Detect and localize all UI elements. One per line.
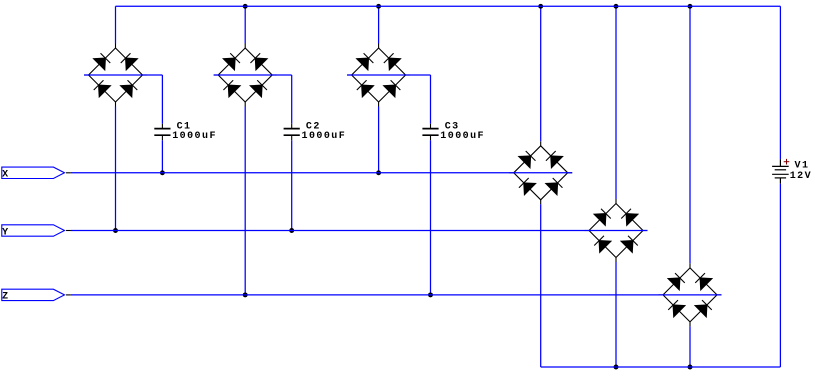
svg-text:V1: V1 <box>795 161 810 172</box>
svg-text:X: X <box>2 170 9 181</box>
svg-text:1000uF: 1000uF <box>172 131 217 142</box>
svg-text:12V: 12V <box>790 171 812 182</box>
svg-text:Y: Y <box>2 227 9 238</box>
svg-text:1000uF: 1000uF <box>440 131 485 142</box>
svg-text:1000uF: 1000uF <box>302 131 347 142</box>
svg-text:Z: Z <box>2 292 9 303</box>
